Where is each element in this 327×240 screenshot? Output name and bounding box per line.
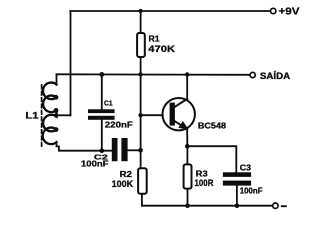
label minus dash (282, 205, 286, 207)
node junction R1 top (139, 9, 143, 13)
svg-text:C1: C1 (104, 99, 113, 108)
node coil spine blobs (54, 95, 59, 132)
wire coil bottom (57, 142, 112, 151)
svg-text:BC548: BC548 (198, 121, 227, 131)
node junction C2 right (138, 148, 143, 153)
wire C1 bottom lead (101, 120, 103, 151)
svg-text:470K: 470K (148, 44, 175, 55)
svg-text:R3: R3 (196, 168, 208, 178)
svg-text:100R: 100R (195, 178, 214, 189)
capacitor C2 (112, 138, 128, 161)
svg-text:R2: R2 (120, 169, 133, 179)
svg-text:100nF: 100nF (240, 186, 263, 196)
wire coil top drop (56, 74, 58, 85)
wire emitter lead (186, 129, 188, 147)
wire R2 bottom lead (141, 195, 143, 206)
capacitor C1 (88, 109, 115, 120)
wire C3 bottom lead (236, 186, 238, 206)
wire top +9V rail (70, 10, 270, 12)
node junction emitter (185, 144, 190, 149)
node junction base (138, 113, 142, 117)
resistor R2 (138, 168, 147, 194)
wire tap from L1 (57, 114, 71, 116)
svg-text:220nF: 220nF (105, 120, 133, 130)
svg-text:100K: 100K (112, 179, 134, 190)
svg-text:100nF: 100nF (81, 158, 109, 168)
resistor R3 (184, 164, 192, 188)
inductor L1 (43, 83, 57, 145)
wire R3 top lead (186, 146, 188, 163)
node junction R3 ground (185, 203, 190, 208)
node junction collector-saida (185, 72, 189, 76)
svg-text:+9V: +9V (279, 6, 300, 17)
node junction C1 top (99, 72, 104, 77)
terminal ground (273, 203, 278, 208)
wire R1 top lead (140, 11, 142, 33)
wire emitter to C3 (187, 146, 236, 172)
transistor Q1 BC548 (163, 98, 195, 130)
svg-text:SAÍDA: SAÍDA (260, 71, 291, 81)
node junction R1 bottom on saida line (139, 72, 143, 76)
wire R1 bottom lead (140, 59, 142, 75)
terminal +9V (271, 8, 276, 13)
resistor R1 (137, 33, 145, 57)
terminal SAIDA (250, 72, 255, 77)
wire C1 top lead (101, 74, 103, 109)
node junction C3 ground (235, 203, 240, 208)
wire collector lead (186, 74, 188, 99)
wire ground rail (142, 205, 273, 207)
wire saida line (57, 73, 251, 76)
wire C2 right lead (128, 149, 141, 151)
node junction C1 bottom (100, 148, 105, 153)
capacitor C3 (223, 172, 251, 185)
svg-text:L1: L1 (25, 110, 38, 120)
svg-text:R1: R1 (149, 34, 160, 44)
wire base lead (141, 114, 170, 116)
wire bias vertical R1 to R2 (140, 74, 142, 167)
wire tap vertical to +9V rail (crossover at saida line) (70, 11, 72, 115)
L1 core (dashed) (41, 85, 43, 146)
svg-text:C3: C3 (240, 164, 252, 173)
wire R3 bottom lead (187, 190, 189, 206)
